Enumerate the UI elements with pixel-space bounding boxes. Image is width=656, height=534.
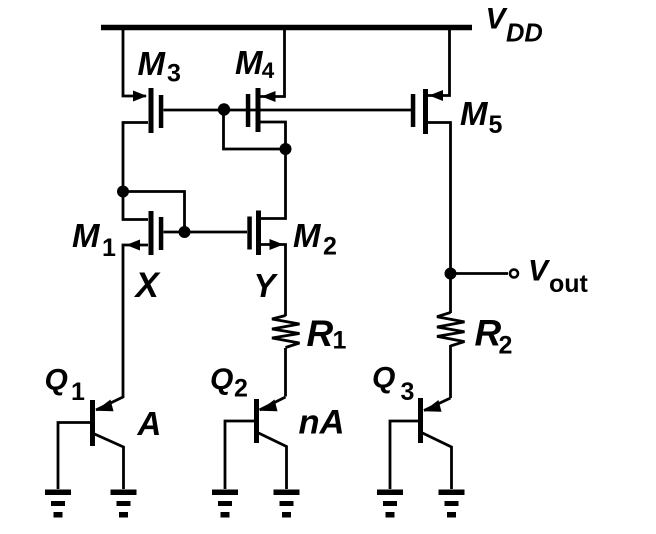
svg-text:2: 2 [499, 331, 513, 359]
svg-text:nA: nA [299, 403, 345, 441]
svg-text:4: 4 [262, 58, 275, 83]
svg-text:M: M [138, 45, 167, 82]
svg-text:2: 2 [234, 374, 248, 402]
svg-text:DD: DD [506, 20, 543, 48]
svg-text:3: 3 [401, 378, 415, 406]
svg-text:M: M [460, 95, 489, 132]
svg-text:Q: Q [210, 363, 233, 396]
svg-text:1: 1 [333, 327, 347, 355]
svg-text:R: R [307, 313, 334, 354]
svg-text:Q: Q [45, 364, 68, 397]
svg-text:V: V [528, 254, 551, 287]
svg-text:1: 1 [102, 234, 116, 262]
svg-text:2: 2 [323, 232, 337, 260]
svg-text:Y: Y [254, 267, 279, 304]
svg-text:3: 3 [167, 59, 181, 87]
svg-text:X: X [134, 266, 162, 305]
svg-text:Q: Q [372, 362, 395, 395]
svg-text:M: M [235, 44, 264, 81]
svg-text:out: out [549, 270, 589, 298]
svg-text:M: M [72, 217, 101, 254]
svg-text:5: 5 [489, 111, 503, 139]
svg-text:A: A [137, 405, 162, 442]
svg-text:M: M [293, 217, 322, 254]
svg-text:R: R [475, 313, 502, 354]
svg-text:1: 1 [71, 378, 85, 406]
